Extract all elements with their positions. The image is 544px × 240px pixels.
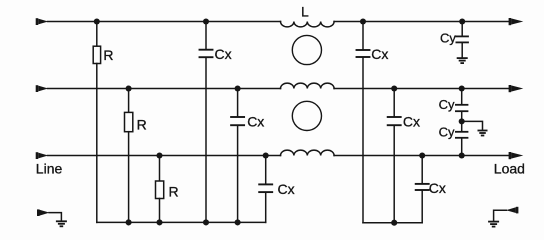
choke L winding 3	[281, 150, 335, 155]
capacitor Cx3	[259, 156, 272, 223]
junction bus R3	[156, 219, 162, 225]
wire line3 left segment	[48, 155, 281, 157]
capacitor Cy3	[456, 121, 468, 155]
capacitor Cx6	[416, 156, 429, 223]
junction line3 Cx6	[419, 152, 425, 158]
resistor R2	[125, 89, 133, 223]
wire ground branch from Cy junction	[462, 121, 483, 129]
junction line3 R3	[156, 152, 162, 158]
capacitor Cx1	[200, 22, 213, 223]
svg-text:L: L	[301, 4, 309, 20]
junction bus Cx2	[235, 219, 241, 225]
wire line1 right segment	[334, 21, 509, 23]
ground for Cy2 Cy3 midpoint	[478, 130, 488, 137]
wire left ground bus	[97, 221, 266, 223]
ground chassis right	[488, 221, 499, 228]
capacitor Cx4	[357, 22, 370, 223]
wire chassis right	[494, 210, 507, 221]
choke L core circle lower	[292, 101, 321, 130]
terminal arrow chassis right	[506, 207, 519, 214]
choke L core circle upper	[292, 35, 321, 64]
junction line2 Cx2	[235, 85, 241, 91]
capacitor Cx5	[388, 89, 401, 223]
junction line1 Cx4	[360, 18, 366, 24]
terminal arrow line1 output	[509, 18, 524, 25]
ground chassis left	[56, 220, 67, 227]
svg-text:R: R	[103, 47, 113, 63]
junction line2 Cy2	[459, 85, 465, 91]
junction line3 Cx3	[263, 152, 269, 158]
junction bus Cx1	[203, 219, 209, 225]
junction line2 R2	[126, 85, 132, 91]
terminal arrow line3 input	[36, 152, 49, 159]
junction Cy midpoint	[459, 118, 465, 124]
terminal arrow chassis left	[37, 209, 50, 216]
ground for Cy1	[457, 57, 468, 64]
junction line1 Cx1	[203, 18, 209, 24]
capacitor Cy2	[456, 89, 468, 122]
svg-text:Load: Load	[494, 160, 525, 176]
svg-text:Line: Line	[36, 160, 63, 176]
junction line3 Cy3	[459, 152, 465, 158]
wire chassis left	[49, 213, 61, 221]
wire line3 right segment	[334, 155, 509, 157]
terminal arrow line3 output	[509, 152, 524, 159]
wire line2 right segment	[334, 88, 509, 90]
terminal arrow line1 input	[36, 18, 49, 25]
choke L winding 1	[281, 22, 335, 27]
svg-text:Cx: Cx	[371, 46, 388, 62]
svg-text:R: R	[169, 184, 179, 200]
wire line1 left segment	[48, 21, 281, 23]
choke L winding 2	[281, 83, 335, 88]
svg-text:Cy: Cy	[440, 30, 456, 45]
junction line2 Cx5	[391, 85, 397, 91]
wire line2 left segment	[48, 88, 281, 90]
capacitor Cy1	[456, 22, 468, 58]
wire right ground bus	[363, 222, 422, 224]
junction line1 Cy1	[459, 18, 465, 24]
resistor R3	[156, 156, 164, 223]
terminal arrow line2 input	[36, 85, 49, 92]
terminal arrow line2 output	[509, 85, 524, 92]
junction bus R2	[126, 219, 132, 225]
svg-text:Cx: Cx	[215, 46, 232, 62]
junction bus Cx5	[391, 220, 397, 226]
svg-text:Cy: Cy	[439, 125, 455, 140]
svg-text:R: R	[137, 116, 147, 132]
junction line1 R1	[94, 18, 100, 24]
resistor R1	[93, 22, 100, 223]
svg-text:Cx: Cx	[429, 180, 446, 196]
svg-text:Cx: Cx	[278, 181, 295, 197]
svg-text:Cx: Cx	[403, 114, 420, 130]
svg-text:Cy: Cy	[439, 97, 455, 112]
capacitor Cx2	[231, 89, 244, 223]
svg-text:Cx: Cx	[247, 114, 264, 130]
